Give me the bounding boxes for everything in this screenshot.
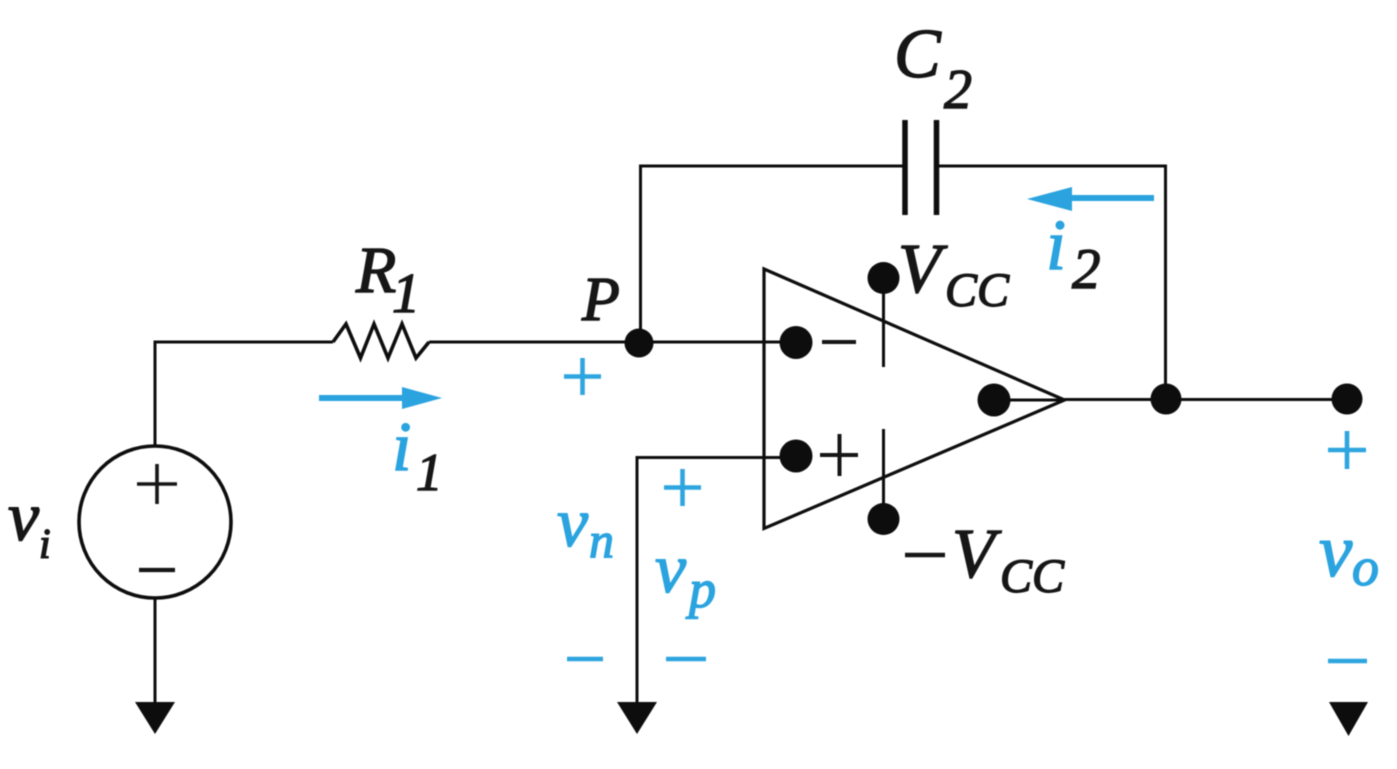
op-amp -VCC supply line bottom xyxy=(882,429,885,519)
minus sign blue vo xyxy=(1328,659,1367,664)
wire vp vertical xyxy=(636,456,639,703)
op-amp minus input dot xyxy=(780,326,813,359)
label i2 xyxy=(1046,205,1101,301)
svg-text:n: n xyxy=(589,512,614,568)
node P dot xyxy=(625,329,654,358)
wire main input horizontal left xyxy=(154,341,334,344)
svg-text:i: i xyxy=(392,409,411,486)
label vn xyxy=(557,485,614,568)
minus sign blue vp xyxy=(666,657,706,662)
wire output internal xyxy=(994,399,1064,402)
svg-text:CC: CC xyxy=(945,264,1010,317)
label vo xyxy=(1319,510,1379,597)
label R1 xyxy=(355,234,420,325)
plus sign blue at node P xyxy=(564,358,601,395)
ground under output xyxy=(1329,702,1368,736)
op-amp plus sign xyxy=(820,434,858,476)
feedback junction dot xyxy=(1151,384,1182,415)
svg-text:v: v xyxy=(557,485,589,562)
ground under source xyxy=(135,702,175,734)
label i1 xyxy=(392,409,443,502)
wire output horizontal xyxy=(1064,398,1347,401)
VCC dot xyxy=(868,262,900,294)
wire feedback top right xyxy=(936,165,1167,168)
svg-text:i: i xyxy=(1046,205,1066,285)
label vi xyxy=(8,479,51,568)
label C2 xyxy=(894,16,972,121)
wire feedback right vertical xyxy=(1164,165,1167,400)
wire source bottom vertical xyxy=(154,598,157,703)
svg-text:2: 2 xyxy=(1072,238,1101,301)
wire feedback left vertical xyxy=(639,166,642,343)
svg-text:P: P xyxy=(581,266,620,334)
svg-text:CC: CC xyxy=(1000,550,1065,603)
label VCC xyxy=(898,231,1010,317)
svg-text:2: 2 xyxy=(944,59,972,121)
-VCC dot xyxy=(868,503,900,535)
svg-text:v: v xyxy=(655,531,687,608)
plus sign blue vo xyxy=(1328,431,1366,469)
current arrow i1 xyxy=(319,387,442,409)
ground under vp xyxy=(617,702,657,734)
op-amp output dot xyxy=(978,384,1011,417)
op-amp U1 triangle xyxy=(764,269,1065,529)
current arrow i2 xyxy=(1027,187,1154,211)
plus sign blue vp xyxy=(664,469,701,506)
svg-text:i: i xyxy=(39,522,51,568)
op-amp plus input dot xyxy=(780,440,813,473)
svg-text:C: C xyxy=(894,16,942,93)
op-amp VCC supply line top xyxy=(882,279,885,367)
svg-text:V: V xyxy=(952,516,1002,593)
svg-text:R: R xyxy=(355,234,396,307)
svg-text:1: 1 xyxy=(392,263,420,325)
svg-text:p: p xyxy=(685,559,716,619)
wire feedback top left xyxy=(639,165,905,168)
output terminal dot xyxy=(1332,384,1363,415)
svg-text:v: v xyxy=(1319,510,1353,593)
svg-text:1: 1 xyxy=(416,444,443,502)
svg-text:o: o xyxy=(1352,537,1379,597)
wire plus input horizontal xyxy=(637,456,795,459)
svg-text:v: v xyxy=(8,479,40,556)
label vp xyxy=(655,531,716,619)
resistor R1 xyxy=(333,324,429,358)
label -VCC xyxy=(905,516,1065,603)
wire source top vertical xyxy=(154,342,157,446)
minus sign blue vn xyxy=(567,657,603,662)
svg-text:V: V xyxy=(898,231,948,308)
voltage source minus sign xyxy=(139,568,175,572)
capacitor C2 plates xyxy=(905,120,937,215)
voltage source Vi circle xyxy=(79,446,231,598)
voltage source plus sign xyxy=(137,464,177,504)
wire resistor to op-amp minus input xyxy=(429,341,795,344)
op-amp minus sign xyxy=(822,340,856,344)
